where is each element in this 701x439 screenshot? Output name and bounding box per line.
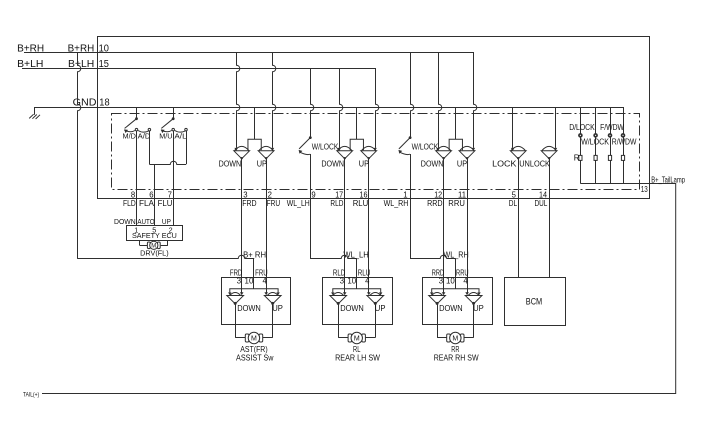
svg-text:4: 4 [463,276,468,285]
svg-text:UP: UP [359,158,369,168]
svg-text:10: 10 [446,276,455,285]
lamp L1 illumination [580,108,582,184]
svg-text:REAR RH SW: REAR RH SW [434,353,479,362]
rocker bridge FR [254,108,256,140]
contact REAR RH SW DOWN [443,277,445,292]
contact FR DOWN [237,52,240,148]
svg-text:WL_LH: WL_LH [343,251,369,260]
switch W-LOCK LH window lock [311,68,314,137]
motor M REAR LH SW [338,324,340,338]
svg-text:RRD: RRD [427,199,443,208]
wire RLD pin17 down [344,198,346,277]
svg-text:ASSIST Sw: ASSIST Sw [236,353,274,362]
contact FR UP [273,52,276,148]
svg-text:DRV(FL): DRV(FL) [140,249,169,258]
svg-text:DUL: DUL [535,199,548,208]
svg-text:WL_RH: WL_RH [384,199,409,208]
svg-text:SAFETY ECU: SAFETY ECU [132,231,177,240]
svg-text:WL_LH: WL_LH [287,199,310,208]
svg-text:FLU: FLU [158,199,173,208]
lamp L4 illumination [623,108,625,184]
wire B+RH bus [24,52,474,54]
wire WL_RH to pin 1 [410,154,412,198]
svg-text:W/LOCK: W/LOCK [412,143,439,152]
svg-text:10: 10 [245,276,254,285]
svg-text:UP: UP [457,158,467,168]
svg-text:F/WDW: F/WDW [600,123,624,132]
svg-text:FLD: FLD [123,199,136,208]
wire A/D contact drop [149,131,151,164]
svg-text:DL: DL [509,199,518,208]
contact RR UP [474,52,477,148]
svg-text:DOWN: DOWN [421,158,444,168]
motor M REAR RH SW [437,324,439,338]
svg-text:18: 18 [99,98,110,109]
rocker bridge REAR RH SW [432,289,479,293]
rocker bridge RL [356,108,358,140]
svg-text:4: 4 [263,276,268,285]
svg-text:B+RH: B+RH [68,44,95,55]
svg-text:M: M [251,336,257,343]
wire B+RH branch to assist switch [78,52,81,259]
switch M/U-A/L driver manual/auto up [173,108,175,119]
wire GND bus [34,107,624,109]
svg-text:15: 15 [99,59,110,70]
svg-text:3: 3 [237,276,242,285]
svg-text:UP: UP [257,158,267,168]
svg-text:RRU: RRU [448,199,465,208]
svg-text:9: 9 [311,190,316,199]
svg-text:RLD: RLD [330,199,343,208]
svg-text:10: 10 [99,44,110,55]
svg-text:3: 3 [439,276,444,285]
wire WL_LH pin9 to rear LH switch pin10 [310,198,312,259]
wire FRU pin2 to assist switch [266,198,268,277]
svg-text:W/LOCK: W/LOCK [581,138,609,147]
svg-text:M/D: M/D [123,131,137,140]
resistor R1 [579,155,582,160]
wire B+LH bus [22,68,376,70]
wire RLU pin16 down [368,198,370,277]
resistor R4 [621,155,624,160]
rocker bridge RR [455,108,457,140]
svg-text:GND: GND [73,98,97,109]
svg-text:FRU: FRU [267,199,281,208]
motor M ASSIST Sw [235,324,237,338]
svg-text:13: 13 [641,185,648,194]
svg-text:UP: UP [375,303,386,313]
safety ECU U1 [127,226,183,241]
svg-text:R: R [574,154,580,163]
wire auto bus joining A/D and A/L to pin 6 [149,161,186,164]
contact ASSIST Sw DOWN [241,277,243,292]
svg-text:FLA: FLA [139,199,155,208]
svg-text:B+LH: B+LH [17,59,43,70]
lamp L3 illumination [610,108,612,184]
switch box REAR LH SW [323,278,393,325]
svg-text:M: M [354,336,360,343]
contact REAR LH SW UP [368,277,370,292]
contact ASSIST Sw UP [266,277,268,292]
svg-text:UP: UP [473,303,484,313]
ground symbol [34,108,36,115]
svg-text:UP: UP [272,303,283,313]
svg-text:DOWN: DOWN [114,217,136,226]
wire DUL pin14 to BCM [549,198,551,277]
wire WL_LH to pin 9 [310,154,312,198]
resistor R3 [608,155,611,160]
wire pin6 FLA to ECU pin 5 [154,198,156,225]
rocker bridge REAR LH SW [333,289,381,293]
svg-text:DOWN: DOWN [340,303,364,313]
contact RL DOWN [340,68,343,148]
contact REAR LH SW DOWN [344,277,346,292]
svg-text:4: 4 [365,276,370,285]
svg-text:M/U: M/U [159,131,172,140]
lamp L2 illumination [595,108,597,184]
contact door LOCK [512,108,514,148]
svg-text:DOWN: DOWN [439,303,463,313]
svg-text:FRD: FRD [242,199,257,208]
svg-text:DOWN: DOWN [219,158,242,168]
main power window main switch box [98,37,650,199]
wire FLD from M/D contact to pin 8 [136,131,138,198]
contact door UNLOCK [555,108,557,148]
svg-text:W/LOCK: W/LOCK [312,143,339,152]
switch M/D-A/D driver manual/auto down [136,108,138,119]
svg-text:10: 10 [347,276,356,285]
svg-text:DOWN: DOWN [321,158,344,168]
svg-text:R/WDW: R/WDW [612,138,637,147]
motor DRV(FL) [139,240,141,245]
BCM module box [505,278,566,326]
svg-text:B+ RH: B+ RH [243,250,266,259]
wire lamp common to pin 13 [580,183,649,185]
wire RRU pin11 down [467,198,469,277]
switch box ASSIST Sw [222,278,291,325]
dash-dot function boundary box [112,114,640,190]
wire FRD pin3 to assist switch [241,198,243,277]
svg-text:B+_TailLamp: B+_TailLamp [651,175,685,184]
svg-text:D/LOCK: D/LOCK [569,123,595,132]
svg-text:UNLOCK: UNLOCK [519,158,550,168]
rocker bridge ASSIST Sw [230,289,278,293]
svg-text:DOWN: DOWN [237,303,261,313]
svg-text:TAIL(+): TAIL(+) [23,391,39,398]
wire pin8 FLD to ECU pin 1 [136,198,138,225]
contact RR DOWN [439,52,442,148]
svg-text:REAR LH SW: REAR LH SW [335,353,380,362]
wire DL pin5 to BCM [518,198,520,277]
svg-text:LOCK: LOCK [492,158,517,168]
wire pin7 FLU to ECU pin 2 [173,198,175,225]
svg-text:RLU: RLU [353,199,369,208]
contact REAR RH SW UP [467,277,469,292]
contact RL UP [376,68,379,148]
switch W-LOCK RH window lock [411,52,414,137]
svg-text:A/L: A/L [174,131,186,140]
switch box REAR RH SW [423,278,493,325]
wire FLU from M/U contact to pin 7 [173,131,175,198]
resistor R2 [594,155,597,160]
svg-text:BCM: BCM [526,297,542,307]
wire RRD pin12 down [443,198,445,277]
svg-text:M: M [452,336,458,343]
wire A/L contact drop [186,131,188,164]
wire WL_RH pin1 to rear RH switch pin10 [410,198,412,259]
svg-text:B+RH: B+RH [17,44,44,55]
svg-text:WL_RH: WL_RH [443,251,469,260]
svg-text:3: 3 [340,276,345,285]
wire B+_TailLamp routing [42,184,676,394]
